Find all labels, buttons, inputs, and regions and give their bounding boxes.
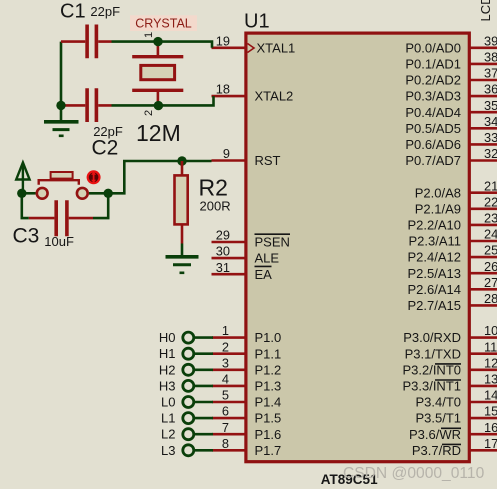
svg-text:5: 5 — [222, 388, 229, 403]
svg-text:36: 36 — [484, 82, 497, 97]
wire XTAL1 net (crystal top to pin 19) — [112, 42, 213, 48]
P2 pin numbers — [484, 178, 497, 306]
pin PSEN stub (29) — [212, 241, 247, 244]
svg-text:32: 32 — [484, 146, 497, 161]
value 12M — [136, 120, 181, 146]
svg-text:35: 35 — [484, 98, 497, 113]
P3 pins right: stubs — [470, 338, 497, 451]
svg-text:17: 17 — [484, 436, 497, 451]
svg-text:1: 1 — [222, 323, 229, 338]
label C2 — [92, 137, 119, 160]
chip U1 body — [246, 33, 469, 462]
svg-text:26: 26 — [484, 259, 497, 274]
svg-text:38: 38 — [484, 50, 497, 65]
junction dot crystal top — [153, 37, 162, 46]
svg-text:15: 15 — [484, 404, 497, 419]
svg-text:6: 6 — [222, 404, 229, 419]
wire button left — [22, 192, 36, 195]
svg-text:31: 31 — [216, 260, 230, 275]
svg-text:P1.3: P1.3 — [255, 379, 282, 394]
svg-text:P2.3/A11: P2.3/A11 — [408, 234, 461, 249]
svg-text:P0.2/AD2: P0.2/AD2 — [405, 73, 461, 88]
wire button right — [89, 192, 108, 195]
svg-text:C1: C1 — [60, 1, 86, 23]
svg-text:9: 9 — [223, 146, 230, 161]
svg-text:CRYSTAL: CRYSTAL — [135, 17, 192, 31]
junction dot button left — [17, 189, 26, 198]
svg-text:LCD: LCD — [478, 0, 493, 22]
svg-text:37: 37 — [484, 66, 497, 81]
svg-text:P0.6/AD6: P0.6/AD6 — [405, 137, 461, 152]
svg-text:2: 2 — [222, 339, 229, 354]
svg-text:P0.1/AD1: P0.1/AD1 — [405, 57, 461, 72]
svg-text:XTAL1: XTAL1 — [257, 40, 296, 55]
ground (R2) — [166, 244, 199, 273]
P3 pin labels — [402, 330, 461, 458]
label C1 — [60, 1, 86, 23]
capacitor C2 — [64, 88, 112, 122]
pushbutton (reset) — [37, 172, 88, 199]
pin label XTAL1 — [257, 40, 296, 55]
wire XTAL2 net (crystal bottom to pin 18) — [112, 96, 214, 105]
svg-text:CSDN @0000_0110: CSDN @0000_0110 — [343, 465, 485, 482]
svg-text:L2: L2 — [161, 427, 175, 442]
svg-text:H1: H1 — [159, 346, 176, 361]
svg-text:33: 33 — [484, 130, 497, 145]
pin number 30 — [216, 244, 230, 259]
pin number 9 — [223, 146, 230, 161]
pin number 29 — [216, 228, 230, 243]
svg-text:39: 39 — [484, 33, 497, 48]
pin ALE stub (30) — [212, 257, 247, 260]
svg-text:P0.5/AD5: P0.5/AD5 — [405, 121, 461, 136]
power terminal VCC arrow — [16, 163, 29, 194]
svg-text:27: 27 — [484, 275, 497, 290]
P0 pin numbers — [484, 33, 497, 161]
svg-text:10: 10 — [484, 323, 497, 338]
P2 pin labels — [408, 185, 462, 313]
svg-text:29: 29 — [216, 228, 230, 243]
P2 pins right: stubs — [470, 193, 497, 306]
node label LCD (rotated, top right) — [478, 0, 493, 22]
button interactive marker — [87, 170, 101, 184]
crystal pin number 2 (rotated) — [143, 110, 155, 116]
svg-text:28: 28 — [484, 291, 497, 306]
capacitor C3 — [29, 200, 93, 236]
svg-text:30: 30 — [216, 244, 230, 259]
svg-text:21: 21 — [484, 178, 497, 193]
svg-text:3: 3 — [222, 355, 229, 370]
junction dot RST/R2 — [177, 156, 186, 165]
capacitor C1 — [61, 25, 112, 59]
label U1 — [244, 10, 270, 32]
svg-text:12: 12 — [484, 355, 497, 370]
svg-text:P1.1: P1.1 — [255, 346, 282, 361]
svg-text:H2: H2 — [159, 362, 176, 377]
svg-text:19: 19 — [216, 33, 230, 48]
svg-text:P1.4: P1.4 — [255, 395, 282, 410]
pin label ALE — [255, 251, 280, 266]
svg-text:P0.7/AD7: P0.7/AD7 — [405, 153, 461, 168]
pin RST stub (9) — [212, 159, 247, 162]
crystal pin number 1 (rotated) — [143, 32, 155, 38]
pin label RST — [255, 153, 281, 168]
terminal labels H0-L3 — [159, 330, 176, 458]
svg-text:P3.0/RXD: P3.0/RXD — [403, 330, 461, 345]
overline INT0 — [435, 363, 461, 365]
CRYSTAL highlight label — [130, 15, 197, 31]
svg-text:P0.0/AD0: P0.0/AD0 — [405, 40, 461, 55]
svg-text:P2.7/A15: P2.7/A15 — [408, 298, 462, 313]
svg-text:L1: L1 — [161, 411, 175, 426]
svg-text:2: 2 — [143, 110, 155, 116]
value 22pF (C2) — [93, 124, 123, 139]
svg-text:P3.1/TXD: P3.1/TXD — [405, 346, 461, 361]
crystal X1 — [132, 46, 183, 102]
svg-text:L0: L0 — [161, 395, 175, 410]
junction dot button right — [104, 189, 113, 198]
overline RD — [442, 443, 461, 445]
value 22pF (C1) — [90, 4, 120, 19]
pin label PSEN with overline — [255, 234, 291, 249]
terminals H0-L3 — [183, 332, 194, 456]
svg-text:7: 7 — [222, 420, 229, 435]
svg-text:22: 22 — [484, 194, 497, 209]
svg-text:P0.4/AD4: P0.4/AD4 — [405, 105, 461, 120]
svg-text:RST: RST — [255, 153, 281, 168]
svg-text:22pF: 22pF — [90, 4, 120, 19]
P1 pin labels — [255, 330, 282, 458]
svg-text:P2.6/A14: P2.6/A14 — [408, 282, 462, 297]
label AT89C51 — [321, 472, 378, 487]
svg-text:PSEN: PSEN — [255, 235, 290, 250]
P0 pins right: stubs — [470, 48, 497, 161]
junction dot C1/C2/ground — [56, 101, 65, 110]
pin XTAL1 stub (19) — [212, 46, 247, 49]
svg-text:25: 25 — [484, 243, 497, 258]
svg-text:L3: L3 — [161, 443, 175, 458]
svg-text:11: 11 — [484, 339, 497, 354]
svg-text:P2.1/A9: P2.1/A9 — [415, 201, 461, 216]
svg-text:10uF: 10uF — [44, 234, 74, 249]
pin number 18 — [216, 82, 230, 97]
svg-text:EA: EA — [255, 267, 273, 282]
pin XTAL1 clock arrow — [248, 44, 255, 53]
svg-text:P2.5/A13: P2.5/A13 — [408, 266, 462, 281]
pin number 19 — [216, 33, 230, 48]
svg-text:P3.4/T0: P3.4/T0 — [415, 395, 461, 410]
svg-text:P1.7: P1.7 — [255, 443, 282, 458]
pin EA stub (31) — [212, 273, 247, 276]
label R2 — [199, 174, 228, 200]
svg-text:ALE: ALE — [255, 251, 280, 266]
svg-text:14: 14 — [484, 388, 497, 403]
pin label EA with overline — [255, 266, 273, 281]
wire RST net — [108, 161, 211, 193]
overline INT1 — [435, 379, 461, 381]
svg-text:24: 24 — [484, 227, 497, 242]
svg-text:13: 13 — [484, 372, 497, 387]
P1 pins left: stubs — [212, 338, 246, 451]
pin XTAL2 stub (18) — [212, 95, 247, 98]
svg-text:1: 1 — [143, 32, 155, 38]
svg-text:18: 18 — [216, 82, 230, 97]
ground (crystal caps) — [44, 108, 79, 136]
P0 pin labels — [405, 40, 461, 168]
svg-text:R2: R2 — [199, 174, 228, 200]
svg-text:H3: H3 — [159, 378, 176, 393]
svg-text:P2.4/A12: P2.4/A12 — [408, 250, 462, 265]
svg-text:P1.0: P1.0 — [255, 330, 282, 345]
junction dot crystal bottom — [154, 101, 163, 110]
svg-text:C2: C2 — [92, 137, 119, 160]
svg-text:23: 23 — [484, 211, 497, 226]
svg-text:P0.3/AD3: P0.3/AD3 — [405, 89, 461, 104]
wire C3 left branch — [22, 193, 29, 218]
svg-text:XTAL2: XTAL2 — [255, 89, 294, 104]
resistor R2 — [175, 161, 188, 244]
value 200R — [200, 198, 231, 213]
svg-text:P3.5/T1: P3.5/T1 — [415, 411, 461, 426]
svg-text:200R: 200R — [200, 198, 231, 213]
svg-text:12M: 12M — [136, 120, 181, 146]
label C3 — [13, 225, 40, 248]
wire C3 right branch — [93, 193, 108, 218]
svg-text:P2.0/A8: P2.0/A8 — [415, 185, 461, 200]
pin label XTAL2 — [255, 89, 294, 104]
svg-text:4: 4 — [222, 372, 229, 387]
svg-text:P1.5: P1.5 — [255, 411, 282, 426]
svg-text:8: 8 — [222, 436, 229, 451]
svg-text:P1.6: P1.6 — [255, 427, 282, 442]
wire C1 left to ground rail — [61, 42, 64, 106]
svg-text:16: 16 — [484, 420, 497, 435]
svg-text:U1: U1 — [244, 10, 270, 32]
svg-text:H0: H0 — [159, 330, 176, 345]
value 10uF — [44, 234, 74, 249]
svg-text:C3: C3 — [13, 225, 40, 248]
P3 pin numbers — [484, 323, 497, 451]
svg-text:34: 34 — [484, 114, 497, 129]
watermark — [343, 465, 485, 482]
pin number 31 — [216, 260, 230, 275]
P1 pin numbers 1-8 — [222, 323, 229, 451]
overline WR — [441, 427, 461, 429]
terminal wires — [195, 338, 213, 451]
svg-text:P1.2: P1.2 — [255, 362, 282, 377]
svg-text:P2.2/A10: P2.2/A10 — [408, 218, 462, 233]
